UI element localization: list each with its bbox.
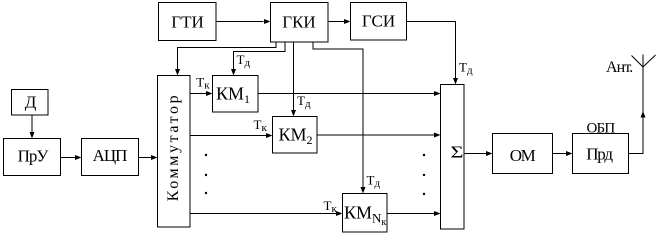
block GTI (ГТИ) <box>159 3 217 41</box>
wire GKI to KM2 top <box>291 42 296 117</box>
wire KM1 to summator <box>258 91 441 96</box>
dots before summator <box>423 154 425 195</box>
wire ACP to Kommutator <box>139 155 158 160</box>
wire GKI to KM1 top <box>231 42 285 76</box>
block PrU (ПрУ) <box>4 139 61 176</box>
block GSI (ГСИ) <box>351 3 407 41</box>
wire GTI to GKI <box>216 19 271 24</box>
svg-text:Прд: Прд <box>586 145 613 164</box>
wire Kommutator to KMNk (Tk) <box>190 211 343 216</box>
block KM1 (КМ1) <box>213 76 259 113</box>
wire summator to OM <box>464 151 493 156</box>
wire GSI to summator top <box>407 22 459 85</box>
svg-text:ГТИ: ГТИ <box>171 13 204 32</box>
wire KMNk to summator <box>387 211 441 216</box>
svg-text:Ант.: Ант. <box>606 59 632 76</box>
wire GKI to KMNk top <box>313 42 366 194</box>
block KMNk (КМ N_к) <box>343 194 388 233</box>
svg-text:ГСИ: ГСИ <box>362 12 395 31</box>
wire KM2 to summator <box>317 133 441 138</box>
wire PrU to ACP <box>61 155 82 160</box>
svg-text:Коммутатор: Коммутатор <box>165 93 182 201</box>
block summator (Σ) <box>441 85 465 230</box>
wire D to PrU <box>30 115 35 139</box>
block D (Д) sensor <box>12 90 49 116</box>
antenna symbol <box>632 55 656 68</box>
wire GKI to GSI <box>328 19 351 24</box>
dots between Kommutator and KM blocks <box>205 154 207 194</box>
block KM2 (КМ2) <box>273 117 318 154</box>
wire GKI to Kommutator top <box>175 42 276 76</box>
svg-text:АЦП: АЦП <box>93 146 128 165</box>
wire Prd to antenna <box>629 67 646 154</box>
wire OM to Prd <box>553 151 573 156</box>
wire Kommutator to KM1 (Tk) <box>190 91 213 96</box>
wire Kommutator to KM2 (Tk) <box>190 133 273 138</box>
svg-text:ГКИ: ГКИ <box>282 13 315 32</box>
block Kommutator (Коммутатор) <box>158 76 191 228</box>
block GKI (ГКИ) <box>271 3 329 43</box>
block Prd (Прд) transmitter <box>573 134 629 174</box>
svg-text:Σ: Σ <box>451 143 464 162</box>
svg-text:Д: Д <box>25 93 37 112</box>
block ACP (АЦП) <box>82 139 139 176</box>
svg-text:ОБП: ОБП <box>587 121 616 137</box>
block OM (ОМ) <box>493 134 553 174</box>
svg-text:ОМ: ОМ <box>510 146 536 165</box>
svg-text:ПрУ: ПрУ <box>18 147 50 166</box>
